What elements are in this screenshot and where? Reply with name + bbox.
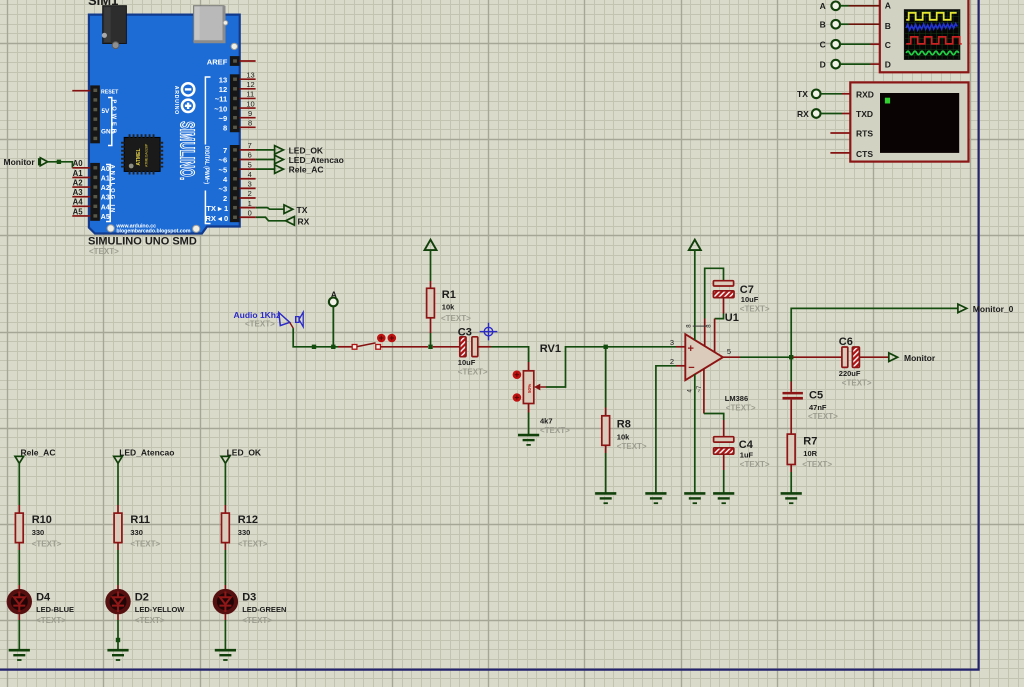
svg-text:RX ◂ 0: RX ◂ 0	[205, 214, 228, 223]
wire D3 to ground	[224, 620, 226, 649]
svg-text:TX: TX	[297, 205, 308, 215]
svg-text:blogembarcado.blogspot.com: blogembarcado.blogspot.com	[116, 228, 190, 234]
resistor R7	[787, 434, 795, 464]
stub wire pin 11	[240, 97, 256, 99]
pin opamp 3	[676, 346, 685, 348]
generator pin	[290, 322, 294, 328]
svg-text:D: D	[820, 60, 826, 70]
pin scope C	[871, 43, 880, 45]
svg-text:<TEXT>: <TEXT>	[458, 367, 488, 376]
capacitor C5	[783, 392, 803, 400]
terminal scope D	[820, 60, 840, 70]
stub wire pin for Rele_AC	[240, 168, 256, 170]
svg-text:LED-BLUE: LED-BLUE	[36, 605, 74, 614]
svg-text:<TEXT>: <TEXT>	[89, 247, 119, 256]
switch toggle marker 2	[388, 334, 397, 343]
svg-text:~10: ~10	[214, 104, 227, 113]
svg-text:Audio 1Khz: Audio 1Khz	[234, 310, 281, 320]
svg-text:A0: A0	[73, 159, 84, 168]
pin R7 bottom	[790, 465, 792, 473]
stub wire pin 1 TX	[240, 207, 256, 209]
pin R1 bottom	[430, 318, 432, 333]
wire scope D	[840, 63, 871, 65]
terminal LED_Atencao	[275, 155, 284, 164]
pin C3 left	[433, 346, 460, 348]
pin D3 bottom	[224, 614, 226, 620]
svg-text:13: 13	[246, 70, 254, 79]
stub wire A1	[72, 176, 90, 178]
pin opamp output 5	[723, 356, 740, 358]
svg-text:B: B	[820, 20, 826, 30]
svg-text:TX ▸ 1: TX ▸ 1	[206, 204, 229, 213]
junction R8 node	[604, 345, 608, 349]
wire TX to terminal	[821, 93, 842, 95]
svg-text:C: C	[885, 40, 891, 50]
svg-text:SIMULINO UNO SMD: SIMULINO UNO SMD	[88, 236, 197, 248]
pin D3 top	[224, 585, 226, 589]
RV1 toggle marker 1	[513, 370, 522, 379]
pin R12 bottom	[224, 543, 226, 550]
virtual terminal cursor	[885, 98, 890, 104]
svg-text:RX: RX	[797, 109, 809, 119]
terminal Monitor	[889, 353, 898, 362]
svg-text:SIMULINO.: SIMULINO.	[176, 121, 198, 180]
pin C5 bottom to R7	[790, 400, 792, 435]
wire power to opamp pin6	[694, 250, 696, 340]
svg-text:A: A	[885, 1, 891, 11]
svg-text:<TEXT>: <TEXT>	[242, 616, 272, 625]
wire RX to terminal	[821, 113, 842, 115]
pin C3 right	[478, 346, 491, 348]
svg-text:<TEXT>: <TEXT>	[726, 403, 756, 412]
pin C4 top	[723, 420, 725, 437]
switch toggle marker 1	[377, 334, 386, 343]
svg-text:1: 1	[248, 199, 252, 208]
svg-text:U1: U1	[725, 312, 739, 324]
stub wire pin 13	[240, 78, 256, 80]
op-amp pin 4 wire to ground	[694, 374, 696, 492]
terminal scope A	[820, 1, 840, 11]
stub wire A5	[72, 215, 90, 217]
wire R10 to D4	[18, 550, 20, 585]
svg-text:A3: A3	[101, 195, 110, 202]
pin RV1 bottom	[528, 404, 530, 413]
terminal LED_Atencao	[114, 456, 123, 463]
stub wire pin 3	[240, 187, 256, 189]
svg-text:47nF: 47nF	[809, 403, 827, 412]
svg-text:A2: A2	[101, 185, 110, 192]
capacitor C6	[842, 347, 860, 367]
svg-text:~7: ~7	[697, 385, 703, 393]
svg-text:2: 2	[248, 189, 252, 198]
svg-text:RESET: RESET	[101, 89, 119, 95]
pin TXD	[842, 113, 850, 115]
pin R12 top	[224, 505, 226, 513]
arduino power header	[90, 85, 100, 143]
junction on bus	[312, 345, 316, 349]
svg-text:−: −	[688, 362, 694, 374]
svg-text:10: 10	[246, 99, 254, 108]
pin R1 top	[430, 281, 432, 288]
junction output node	[789, 355, 793, 359]
stub wire AREF	[240, 60, 256, 62]
pin R10 top	[18, 505, 20, 513]
pin R10 bottom	[18, 543, 20, 550]
svg-text:<TEXT>: <TEXT>	[540, 426, 570, 435]
arduino logo	[173, 83, 194, 115]
svg-text:A2: A2	[73, 178, 84, 187]
pin C6 right	[859, 356, 888, 358]
stub wire RESET	[72, 90, 90, 92]
svg-text:D: D	[885, 59, 891, 69]
pin C7 bottom	[723, 298, 725, 314]
terminal Monitor_0	[958, 304, 967, 313]
wire TX	[256, 208, 284, 210]
svg-text:~5: ~5	[219, 165, 228, 174]
wire Monitor to A0	[48, 162, 73, 168]
wire RV1 wiper to bus	[546, 347, 604, 387]
svg-text:Monitor: Monitor	[4, 157, 36, 167]
op-amp bottom pin numbers	[687, 385, 703, 393]
svg-text:0: 0	[248, 208, 252, 217]
svg-text:<TEXT>: <TEXT>	[245, 319, 275, 328]
stub wire pin 12	[240, 88, 256, 90]
terminal TX	[284, 205, 293, 214]
terminal scope C	[820, 40, 840, 50]
stub wire A0	[72, 167, 90, 169]
svg-text:A4: A4	[101, 204, 110, 211]
pin scope D	[871, 63, 880, 65]
svg-text:RX: RX	[298, 216, 310, 226]
wire power to R1	[430, 250, 432, 281]
junction on Monitor wire	[57, 160, 61, 164]
wire R1 to bus	[430, 333, 432, 347]
LED D2	[107, 591, 128, 612]
svg-text:50%: 50%	[527, 384, 532, 393]
terminal Monitor input	[39, 158, 48, 166]
svg-text:AREF: AREF	[207, 57, 228, 66]
svg-text:R10: R10	[32, 514, 52, 526]
wire opamp pin2	[656, 366, 676, 493]
wire R11 to D2	[117, 550, 119, 585]
ground RV1	[518, 435, 539, 445]
svg-text:<TEXT>: <TEXT>	[135, 616, 165, 625]
ground D4	[9, 650, 30, 660]
stub CTS	[830, 152, 850, 154]
virtual terminal screen	[880, 93, 959, 153]
wire D2 to ground	[117, 620, 119, 649]
svg-text:4: 4	[248, 170, 252, 179]
oscilloscope body	[880, 0, 969, 72]
arduino power jack	[102, 6, 127, 49]
arduino board body	[89, 15, 240, 234]
svg-text:A: A	[820, 1, 826, 11]
wire scope C	[840, 43, 871, 45]
capacitor C3	[460, 337, 478, 357]
pin scope A	[849, 5, 880, 7]
oscilloscope screen	[904, 10, 961, 60]
svg-text:330: 330	[32, 528, 45, 537]
svg-text:<TEXT>: <TEXT>	[36, 616, 66, 625]
wire output node up	[791, 308, 958, 357]
svg-text:Monitor: Monitor	[904, 353, 936, 363]
pin D4 bottom	[18, 614, 20, 620]
svg-text:2: 2	[670, 357, 674, 366]
wire terminal to R12	[224, 463, 226, 505]
svg-text:R1: R1	[442, 289, 456, 301]
resistor R10	[15, 513, 23, 543]
svg-text:~9: ~9	[219, 114, 228, 123]
arduino analog bracket	[106, 165, 110, 222]
svg-text:A1: A1	[73, 169, 84, 178]
ground C4	[713, 493, 734, 503]
pin RXD	[842, 93, 850, 95]
stub wire pin 0 RX	[240, 216, 256, 218]
arduino mounting pad right	[231, 43, 237, 49]
pin C5 top	[790, 382, 792, 392]
svg-text:<TEXT>: <TEXT>	[238, 539, 268, 548]
svg-text:C7: C7	[740, 284, 754, 296]
wire to LED_Atencao terminal	[256, 159, 275, 161]
svg-text:330: 330	[238, 528, 251, 537]
terminal Rele_AC	[15, 456, 24, 463]
terminal RX	[286, 217, 295, 226]
arduino ATMEL chip	[123, 136, 162, 173]
pin R11 bottom	[117, 543, 119, 550]
svg-text:5V: 5V	[102, 108, 111, 115]
svg-text:10k: 10k	[442, 303, 455, 312]
arduino mounting pad bottom-left	[107, 225, 114, 232]
svg-text:C3: C3	[458, 326, 472, 338]
svg-text:10uF: 10uF	[458, 358, 476, 367]
ground D3	[215, 650, 236, 660]
pin D4 top	[18, 585, 20, 589]
svg-text:<TEXT>: <TEXT>	[617, 442, 647, 451]
stub wire pin 9	[240, 117, 256, 119]
svg-text:ARDUINO: ARDUINO	[173, 86, 179, 115]
svg-text:D4: D4	[36, 591, 51, 603]
svg-text:R12: R12	[238, 514, 258, 526]
svg-text:<TEXT>: <TEXT>	[802, 460, 832, 469]
LED D3	[215, 591, 236, 612]
arduino digital header 7-0	[230, 145, 240, 222]
svg-text:B: B	[885, 21, 891, 31]
wire to opamp pin3	[606, 346, 676, 348]
ground opamp pin2	[645, 493, 666, 503]
svg-text:4k7: 4k7	[540, 416, 553, 425]
wire output node down to C5	[790, 357, 792, 381]
svg-text:~6: ~6	[219, 156, 228, 165]
virtual terminal body	[850, 82, 968, 161]
terminal LED_OK	[221, 456, 230, 463]
svg-text:LED-GREEN: LED-GREEN	[242, 605, 286, 614]
svg-text:Rele_AC: Rele_AC	[289, 165, 324, 175]
wire pin1 to C7	[705, 268, 724, 318]
terminal TX	[797, 89, 821, 99]
pin C6 left	[793, 356, 842, 358]
svg-text:C6: C6	[839, 336, 853, 348]
svg-text:9: 9	[248, 109, 252, 118]
svg-text:A5: A5	[73, 207, 84, 216]
svg-text:LED-YELLOW: LED-YELLOW	[135, 605, 185, 614]
op-amp gain pin numbers	[687, 324, 713, 328]
svg-text:ANALOG IN: ANALOG IN	[109, 165, 115, 215]
pin RV1 top	[528, 362, 530, 371]
capacitor C4	[714, 437, 734, 454]
svg-text:TXD: TXD	[856, 109, 873, 119]
svg-text:Monitor_0: Monitor_0	[973, 304, 1014, 314]
capacitor C7	[713, 281, 734, 298]
wire node A to bus	[332, 306, 334, 347]
svg-text:R11: R11	[130, 514, 150, 526]
junction node A	[331, 345, 335, 349]
svg-text:<TEXT>: <TEXT>	[130, 539, 160, 548]
svg-text:RV1: RV1	[540, 343, 561, 355]
wire R12 to D3	[224, 550, 226, 585]
ground opamp pin4	[684, 493, 705, 503]
arduino AREF pin header	[230, 56, 240, 66]
wire terminal to R11	[117, 463, 119, 505]
svg-text:LED_OK: LED_OK	[289, 145, 324, 155]
wire output to junction	[740, 356, 791, 358]
resistor R11	[114, 513, 122, 543]
svg-text:+: +	[688, 343, 694, 355]
svg-text:A0: A0	[101, 166, 110, 173]
svg-text:<TEXT>: <TEXT>	[441, 314, 471, 323]
svg-text:~11: ~11	[215, 95, 228, 104]
svg-text:~3: ~3	[219, 185, 228, 194]
node A terminal	[329, 289, 338, 306]
pin R8 top	[605, 408, 607, 416]
arduino mounting pad near USB	[223, 21, 228, 26]
terminal LED_OK	[275, 146, 284, 155]
op-amp U1 LM386	[685, 334, 723, 380]
svg-text:D3: D3	[242, 591, 256, 603]
svg-text:10k: 10k	[617, 432, 630, 441]
stub wire A3	[72, 196, 90, 198]
LED D4	[9, 591, 30, 612]
svg-text:POWER: POWER	[111, 100, 117, 136]
svg-text:5: 5	[727, 347, 731, 356]
svg-text:8: 8	[223, 124, 227, 133]
svg-text:LM386: LM386	[725, 394, 748, 403]
svg-text:8: 8	[248, 119, 252, 128]
wire R8 top	[605, 347, 607, 408]
generator audio symbol	[279, 312, 303, 327]
power symbol above op-amp	[689, 240, 701, 250]
svg-text:Rele_AC: Rele_AC	[21, 447, 56, 457]
svg-text:LED_Atencao: LED_Atencao	[289, 155, 344, 165]
pin D2 top	[117, 585, 119, 589]
wire RV1 to ground	[528, 413, 530, 435]
svg-text:A3: A3	[73, 188, 84, 197]
stub wire pin 10	[240, 107, 256, 109]
stub RTS	[830, 132, 850, 134]
svg-text:11: 11	[246, 90, 254, 99]
wire switch to R1 node	[381, 346, 429, 348]
ground R7	[781, 493, 802, 503]
svg-text:<TEXT>: <TEXT>	[808, 412, 838, 421]
pin D2 bottom	[117, 614, 119, 620]
pin C4 bottom	[723, 454, 725, 470]
junction above ground D2	[116, 638, 120, 642]
wire pin7 to C4	[704, 414, 724, 421]
svg-text:7: 7	[223, 146, 227, 155]
arduino digital bracket	[205, 77, 210, 224]
svg-text:12: 12	[219, 85, 227, 94]
svg-text:DIGITAL (PWM~): DIGITAL (PWM~)	[203, 146, 210, 184]
switch SW1	[352, 343, 380, 349]
pin opamp 2	[676, 365, 685, 367]
svg-text:<TEXT>: <TEXT>	[740, 304, 770, 313]
svg-text:13: 13	[219, 75, 227, 84]
stub wire pin 2	[240, 197, 256, 199]
stub wire pin for LED_OK	[240, 149, 256, 151]
arduino analog header A0-A5	[90, 163, 100, 221]
svg-text:<TEXT>: <TEXT>	[32, 539, 62, 548]
wire R7 to ground	[790, 472, 792, 493]
arduino url silk text	[115, 223, 190, 234]
pin R11 top	[117, 505, 119, 513]
terminal scope B	[820, 20, 840, 30]
svg-text:5: 5	[248, 160, 252, 169]
svg-text:RXD: RXD	[856, 89, 874, 99]
resistor R1	[427, 288, 435, 318]
wire D4 to ground	[18, 620, 20, 649]
svg-text:12: 12	[246, 80, 254, 89]
ground D2	[107, 650, 128, 660]
wire scope A	[840, 5, 849, 7]
arduino USB connector	[194, 6, 224, 42]
wire bus to switch	[338, 346, 352, 348]
svg-text:LED_OK: LED_OK	[227, 447, 262, 457]
junction R1 bus	[428, 345, 432, 349]
stub wire pin 4	[240, 178, 256, 180]
svg-text:R8: R8	[617, 419, 631, 431]
svg-text:C5: C5	[809, 389, 823, 401]
svg-text:LED_Atencao: LED_Atencao	[119, 447, 174, 457]
pin R8 bottom	[605, 445, 607, 453]
svg-text:<TEXT>: <TEXT>	[842, 378, 872, 387]
terminal Rele_AC	[275, 165, 284, 174]
wire C3 to RV1	[491, 347, 529, 362]
RV1 toggle marker 2	[513, 393, 522, 402]
svg-text:R7: R7	[803, 435, 817, 447]
svg-text:TX: TX	[797, 89, 808, 99]
wire from generator to bus	[293, 328, 338, 347]
stub wire A4	[72, 205, 90, 207]
wire scope B	[840, 23, 849, 25]
resistor R8	[602, 416, 610, 446]
svg-text:RTS: RTS	[856, 129, 873, 139]
svg-text:10R: 10R	[803, 449, 817, 458]
wire C4 to ground	[723, 470, 725, 493]
svg-text:<TEXT>: <TEXT>	[740, 460, 770, 469]
op-amp pin 1 wire up	[704, 319, 706, 347]
stub wire pin 8	[240, 126, 256, 128]
svg-text:10uF: 10uF	[741, 295, 759, 304]
wire to LED_OK terminal	[256, 149, 275, 151]
svg-text:3: 3	[248, 180, 252, 189]
stub wire pin for LED_Atencao	[240, 159, 256, 161]
ground R8	[595, 493, 616, 503]
origin marker crosshair	[480, 323, 498, 341]
power symbol above R1	[425, 240, 437, 250]
svg-text:6: 6	[248, 151, 252, 160]
arduino mounting pad bottom-right	[193, 225, 200, 232]
resistor R12	[222, 513, 230, 543]
wire terminal to R10	[18, 463, 20, 505]
